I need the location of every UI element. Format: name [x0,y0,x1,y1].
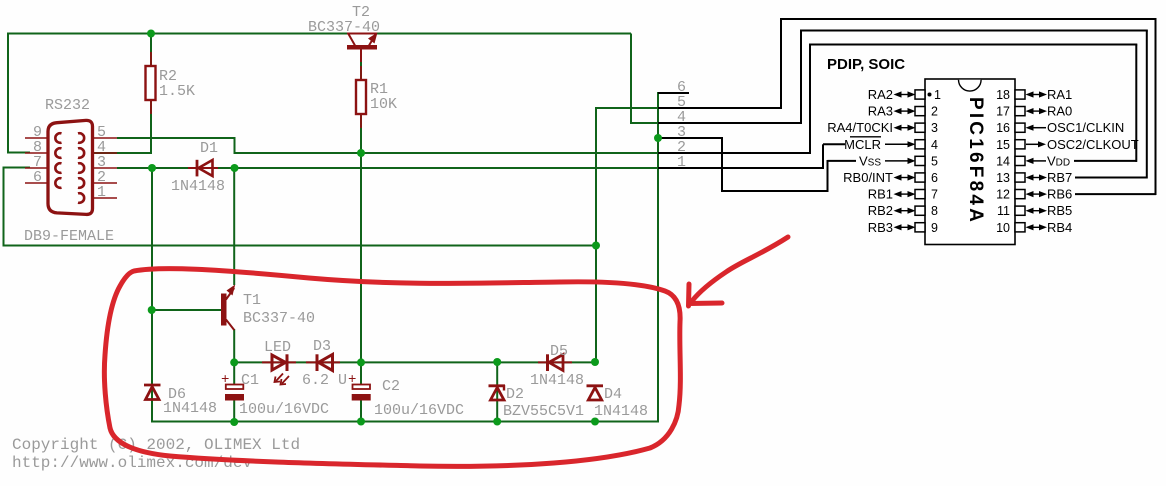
wire stub 1 black part [658,167,824,169]
svg-text:D4: D4 [604,386,622,403]
IC pin box left pin 8 [915,206,925,215]
IC pin box right pin 11 [1015,206,1025,215]
svg-text:6.2 U: 6.2 U [302,372,347,389]
junction bottom rail D2 [493,418,501,426]
wire T1 base [151,309,222,311]
DB9 pin stub 6 [25,182,47,184]
wire into RB7 [1075,177,1147,179]
svg-text:5: 5 [931,154,938,168]
diode D1 1N4148 [188,160,218,177]
IC pin arrow left 8 [897,210,913,212]
wire stub 2 black part [658,152,811,154]
IC pin box right pin 16 [1015,123,1025,132]
wire to DB9 pin 7 [3,167,31,169]
DB9 socket pin 9 [55,133,61,143]
wire stub 6 [658,92,689,94]
IC pin arrow left 9 [897,226,913,228]
diode D5 1N4148 [538,354,572,371]
DB9 pin stub 2 [93,182,117,184]
svg-text:2: 2 [931,105,938,119]
wire stub3 up to Vss row [827,160,829,192]
wire T2 base / R1 / C2 column [360,48,362,385]
wire to DB9 pin 8 [7,152,30,154]
svg-text:11: 11 [997,204,1010,218]
svg-text:RA3: RA3 [868,104,893,119]
diode D6 1N4148 [144,385,161,400]
DB9 socket pin 4 [78,148,84,158]
svg-text:6: 6 [931,171,938,185]
svg-text:RS232: RS232 [45,97,90,114]
IC pin box right pin 10 [1015,223,1025,232]
svg-text:14: 14 [996,154,1010,168]
IC pin box right pin 18 [1015,90,1025,99]
wire middle top to RB7 [800,30,1148,32]
svg-text:RB0/INT: RB0/INT [843,170,893,185]
svg-text:C1: C1 [241,372,259,389]
wire stub4 up [800,31,802,125]
wire T1 collector column to D1 junction [233,167,235,285]
svg-text:10K: 10K [370,96,397,113]
wire stub 3 black part [658,137,723,139]
IC pin 1 dot [928,93,932,97]
wire column x152 T1-base/D6 [151,167,153,423]
diode D3 zener 6.2V [306,354,340,371]
DB9 pin stub 3 [93,167,117,169]
svg-text:MCLR: MCLR [844,137,881,152]
wire D2 column [496,361,498,422]
svg-text:RA4/T0CKI: RA4/T0CKI [827,120,893,135]
svg-text:100u/16VDC: 100u/16VDC [374,402,464,419]
junction bottom rail C1 [230,418,238,426]
IC pin arrow right 14 [1034,160,1047,162]
resistor R2 [146,66,156,100]
svg-text:RA2: RA2 [868,87,893,102]
svg-text:RB4: RB4 [1047,220,1072,235]
svg-text:D3: D3 [313,338,331,355]
svg-text:PDIP, SOIC: PDIP, SOIC [827,56,905,73]
DB9 pin stub 4 [93,152,117,154]
wire stub1 up to MCLR row [822,144,824,169]
svg-text:12: 12 [996,188,1010,202]
svg-text:LED: LED [264,339,291,356]
IC U1 PIC16F84A body [925,79,1015,245]
IC pin box left pin 7 [915,190,925,199]
svg-text:OSC1/CLKIN: OSC1/CLKIN [1047,120,1124,135]
IC pin arrow right 16 [1034,127,1047,129]
connector DB9-FEMALE RS232 [48,120,93,214]
annotation arrow head [689,284,723,306]
IC pin arrow left 7 [897,193,913,195]
junction LED row C2 [357,358,365,366]
wire down to VDD row [1135,45,1137,162]
wire top rail VCC [8,33,631,35]
IC pin box left pin 6 [915,173,925,182]
junction row D4 [591,358,599,366]
svg-text:PIC16F84A: PIC16F84A [965,97,986,225]
IC pin box right pin 17 [1015,107,1025,116]
wire into MCLR label [823,143,845,145]
svg-text:17: 17 [996,105,1010,119]
svg-text:RA0: RA0 [1047,104,1072,119]
wire inner top to VDD [809,44,1137,46]
junction bottom rail D4 [591,418,599,426]
wire stub5 up [780,19,782,109]
IC pin box left pin 3 [915,123,925,132]
DB9 socket pin 7 [55,163,61,173]
svg-text:D1: D1 [200,140,218,157]
IC pin box left pin 9 [915,223,925,232]
DB9 socket pin 6 [55,178,61,188]
wire DB9 pin5 row [117,137,236,139]
svg-text:1: 1 [677,154,686,171]
DB9 pin stub 7 [25,167,47,169]
junction LED row C1 [230,358,238,366]
IC pin box right pin 12 [1015,190,1025,199]
wire top rail down to stub4 [630,34,632,125]
wire R2 bottom column [150,99,152,154]
svg-text:1: 1 [934,88,941,102]
svg-text:1N4148: 1N4148 [594,403,648,420]
junction D1 anode / T1 collector [231,164,239,172]
IC pin arrow right 17 [1029,110,1045,112]
wire outer top to RB6 [780,18,1157,20]
DB9 pin stub 1 [93,197,117,199]
svg-text:T1: T1 [243,292,261,309]
svg-text:9: 9 [931,221,938,235]
wire C1 bottom [233,400,235,423]
DB9 socket pin 5 [78,133,84,143]
svg-text:10: 10 [996,221,1010,235]
annotation arrow shaft [692,237,788,301]
wire down to RB7 row [1146,31,1148,179]
DB9 socket pin 1 [78,193,84,203]
svg-text:1N4148: 1N4148 [530,372,584,389]
IC pin box left pin 5 [915,156,925,165]
annotation hand-drawn loop [104,269,680,467]
junction R1 column row153 [357,149,365,157]
svg-text:15: 15 [996,138,1010,152]
svg-text:1N4148: 1N4148 [171,178,225,195]
IC pin box right pin 14 [1015,156,1025,165]
wire mid rail GND [3,245,596,247]
IC pin arrow left 3 [897,127,913,129]
svg-text:1N4148: 1N4148 [163,400,217,417]
svg-text:D5: D5 [550,343,568,360]
svg-text:1: 1 [97,184,106,201]
junction T1 base [148,306,156,314]
wire row153 to stub2 [234,152,660,154]
svg-text:BC337-40: BC337-40 [308,19,380,36]
wire stub5 row green part [596,107,659,109]
wire stub 4 black part [658,122,802,124]
svg-text:RA1: RA1 [1047,87,1072,102]
LED [262,354,296,384]
IC pin box left pin 1 [915,90,925,99]
wire C2 bottom [360,400,362,422]
IC pin arrow right 10 [1029,226,1045,228]
wire LED / diode row [234,361,596,363]
DB9 pin stub 9 [25,137,47,139]
IC pin arrow right 18 [1029,94,1045,96]
IC pin arrow right 11 [1029,210,1045,212]
svg-text:RB1: RB1 [868,187,893,202]
wire T1 emitter / C1 column [233,329,235,385]
svg-text:16: 16 [996,121,1010,135]
IC pin arrow right 13 [1029,177,1045,179]
svg-text:BZV55C5V1: BZV55C5V1 [503,403,584,420]
transistor T2 BC337-40 [347,33,378,63]
junction R2 top on rail [147,30,155,38]
IC pin box left pin 4 [915,140,925,149]
wire bottom rail [152,421,659,423]
svg-text:Copyright (C) 2002, OLIMEX Ltd: Copyright (C) 2002, OLIMEX Ltd [12,436,300,454]
wire into Vss label [828,160,857,162]
wire R2 top column [150,34,152,68]
wire DB9 pin4 to R2 column [93,152,152,154]
DB9 socket pin 3 [78,163,84,173]
wire into RB6 [1075,193,1156,195]
svg-text:DB9-FEMALE: DB9-FEMALE [24,228,114,245]
svg-text:RB6: RB6 [1047,187,1072,202]
wire stub2 up [809,45,811,155]
IC pin arrow left 2 [897,110,913,112]
capacitor C1 100u/16VDC [221,372,244,401]
svg-text:4: 4 [931,138,938,152]
IC pin box left pin 2 [915,107,925,116]
IC pin arrow right 12 [1029,193,1045,195]
IC pin box right pin 13 [1015,173,1025,182]
wire into VDD [1074,160,1137,162]
svg-text:C2: C2 [382,378,400,395]
svg-text:RB3: RB3 [868,220,893,235]
IC pin box right pin 15 [1015,140,1025,149]
IC pin arrow left 6 [897,177,913,179]
wire left edge down to DB9 pin8 [7,33,9,154]
diode D2 zener BZV55C5V1 [489,385,506,400]
junction mid rail column 596 [592,242,600,250]
svg-text:BC337-40: BC337-40 [243,310,315,327]
svg-text:D2: D2 [506,386,524,403]
junction bottom rail C2 [357,418,365,426]
wire jog down pin5 to row153 [234,137,236,153]
wire stub4 row green part [631,122,659,124]
svg-text:RB2: RB2 [868,203,893,218]
wire down to RB6 row [1155,19,1157,195]
svg-text:6: 6 [33,169,42,186]
wire stub3 across [722,190,829,192]
svg-text:RB5: RB5 [1047,203,1072,218]
svg-text:100u/16VDC: 100u/16VDC [239,401,329,418]
resistor R1 [356,80,366,114]
DB9 pin stub 8 [25,152,47,154]
junction D6 column on D1 row [148,164,156,172]
diode D4 1N4148 [587,386,604,400]
svg-text:8: 8 [931,204,938,218]
IC pin arrow left 1 [897,94,913,96]
IC notch [959,80,982,91]
junction row D2 [493,358,501,366]
wire stub3 down [721,137,723,192]
wire stub 5 black part [658,107,782,109]
IC pin arrow left 4 [885,143,908,145]
wire column x658 down to bottom rail [657,92,659,423]
IC pin arrow right 15 [1026,143,1038,145]
svg-text:18: 18 [996,88,1010,102]
svg-text:13: 13 [996,171,1010,185]
svg-text:3: 3 [931,121,938,135]
svg-text:RB7: RB7 [1047,170,1072,185]
svg-text:7: 7 [931,188,938,202]
wire DB9 pin3 / D1 row [117,167,659,169]
DB9 pin stub 5 [93,137,117,139]
DB9 socket pin 8 [55,148,61,158]
svg-text:OSC2/CLKOUT: OSC2/CLKOUT [1047,137,1139,152]
transistor T1 BC337-40 [221,285,235,331]
junction stub3 on column 658 [654,134,662,142]
capacitor C2 100u/16VDC [348,372,371,401]
wire DB9 pin7 down [3,167,5,247]
wire column x596 down [595,107,597,363]
svg-text:1.5K: 1.5K [159,83,195,100]
DB9 socket pin 2 [78,178,84,188]
IC pin arrow left 5 [885,160,908,162]
